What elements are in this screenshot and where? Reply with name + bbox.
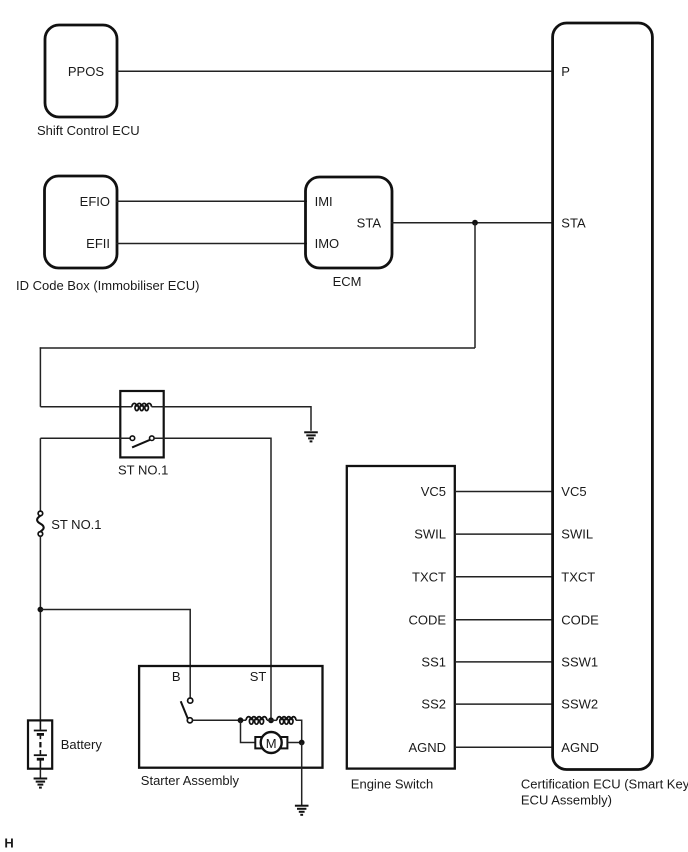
- engine switch box: [347, 466, 455, 769]
- wire STA (ECM to Certification ECU): [391, 222, 553, 224]
- starter assembly box: [139, 666, 322, 768]
- wire coil2 to right corner: [296, 720, 302, 742]
- svg-text:STA: STA: [357, 215, 382, 230]
- svg-text:IMO: IMO: [315, 236, 340, 251]
- wire fuse to battery: [39, 536, 41, 720]
- svg-text:VC5: VC5: [561, 484, 586, 499]
- wire STA branch vertical: [474, 223, 476, 348]
- certification ECU pin labels: [561, 64, 599, 755]
- wire relay coil to ground: [152, 407, 312, 431]
- wire left to relay switch: [40, 437, 130, 439]
- junction dot battery branch: [38, 607, 44, 613]
- wire TXCT: [455, 576, 553, 578]
- junction dot ST entry: [268, 717, 274, 723]
- relay ST NO.1 box: [120, 391, 163, 457]
- svg-text:EFII: EFII: [86, 236, 110, 251]
- wire to relay coil terminal: [40, 406, 131, 408]
- svg-text:SSW1: SSW1: [561, 655, 598, 670]
- wire SS2 to SSW2: [455, 703, 553, 705]
- svg-text:Starter Assembly: Starter Assembly: [141, 773, 240, 788]
- wire P (PPOS to Certification ECU): [117, 70, 553, 72]
- svg-text:EFIO: EFIO: [80, 194, 110, 209]
- svg-text:AGND: AGND: [561, 740, 599, 755]
- starter coil 1: [246, 717, 267, 725]
- svg-text:M: M: [266, 736, 277, 751]
- engine switch pin labels: [408, 484, 446, 755]
- wire motor right to junction: [287, 742, 301, 744]
- wire EFIO to IMI: [116, 200, 307, 202]
- certification ECU box: [553, 23, 653, 770]
- wire relay switch to starter ST: [154, 438, 271, 720]
- svg-text:STA: STA: [561, 215, 586, 230]
- junction dot STA branch: [472, 220, 478, 226]
- svg-text:ST NO.1: ST NO.1: [51, 517, 101, 532]
- Shift Control ECU box: [37, 25, 140, 138]
- relay switch blade: [132, 440, 150, 448]
- svg-text:CODE: CODE: [408, 612, 446, 627]
- svg-text:CODE: CODE: [561, 612, 599, 627]
- svg-text:AGND: AGND: [408, 740, 446, 755]
- relay switch contacts: [130, 436, 135, 441]
- svg-text:SS2: SS2: [421, 697, 446, 712]
- motor M1: [261, 732, 282, 753]
- wire CODE: [455, 619, 553, 621]
- svg-text:SWIL: SWIL: [414, 527, 446, 542]
- motor brush left: [255, 737, 262, 748]
- svg-text:ID Code Box (Immobiliser ECU): ID Code Box (Immobiliser ECU): [16, 278, 200, 293]
- wire STA branch horizontal: [40, 347, 475, 349]
- wire AGND: [455, 746, 553, 748]
- starter switch blade: [181, 701, 188, 718]
- svg-text:ST NO.1: ST NO.1: [118, 463, 168, 478]
- svg-text:Certification ECU (Smart Key: Certification ECU (Smart Key: [521, 777, 688, 792]
- wire EFII to IMO: [116, 243, 307, 245]
- wire between coils: [267, 719, 277, 721]
- ground (battery): [34, 779, 48, 788]
- wire down-left to relay coil: [39, 347, 41, 407]
- wire junction to starter B: [40, 610, 190, 699]
- svg-text:H: H: [4, 836, 13, 851]
- starter coil 2: [277, 717, 296, 725]
- svg-text:ECM: ECM: [333, 274, 362, 289]
- wire motor left branch: [241, 720, 256, 742]
- ECM box: [306, 177, 393, 289]
- wire SS1 to SSW1: [455, 661, 553, 663]
- wire switch to coil: [193, 719, 247, 721]
- ground (relay coil): [304, 432, 318, 441]
- wire SWIL: [455, 533, 553, 535]
- svg-text:Battery: Battery: [61, 737, 103, 752]
- wire motor junction to ground: [301, 743, 303, 806]
- svg-text:SWIL: SWIL: [561, 527, 593, 542]
- svg-text:VC5: VC5: [421, 484, 446, 499]
- svg-text:ST: ST: [250, 669, 267, 684]
- svg-text:ECU Assembly): ECU Assembly): [521, 793, 612, 808]
- ground (starter): [295, 806, 309, 815]
- battery: [28, 720, 102, 768]
- svg-text:P: P: [561, 64, 570, 79]
- junction dot motor-left branch: [238, 717, 244, 723]
- wire VC5: [455, 491, 553, 493]
- svg-text:Engine Switch: Engine Switch: [351, 777, 433, 792]
- svg-text:Shift Control ECU: Shift Control ECU: [37, 123, 140, 138]
- junction dot motor right: [299, 740, 305, 746]
- svg-text:SSW2: SSW2: [561, 697, 598, 712]
- svg-text:PPOS: PPOS: [68, 64, 104, 79]
- relay coil: [132, 403, 152, 410]
- wire battery to ground: [39, 769, 41, 778]
- svg-text:IMI: IMI: [315, 194, 333, 209]
- ID Code Box (Immobiliser ECU): [16, 176, 200, 293]
- svg-text:TXCT: TXCT: [412, 569, 446, 584]
- fuse ST NO.1: [37, 511, 101, 536]
- starter switch contact B: [188, 698, 193, 703]
- svg-text:TXCT: TXCT: [561, 569, 595, 584]
- motor brush right: [281, 737, 288, 748]
- wire switch row down to fuse: [39, 438, 41, 511]
- starter switch contact lower: [187, 718, 192, 723]
- svg-text:SS1: SS1: [421, 655, 446, 670]
- svg-text:B: B: [172, 669, 181, 684]
